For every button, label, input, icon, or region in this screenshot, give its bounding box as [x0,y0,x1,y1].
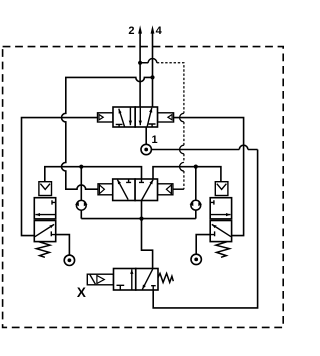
svg-text:X: X [77,285,86,300]
svg-text:4: 4 [156,25,163,37]
svg-text:1: 1 [152,134,158,146]
svg-text:2: 2 [128,25,134,37]
